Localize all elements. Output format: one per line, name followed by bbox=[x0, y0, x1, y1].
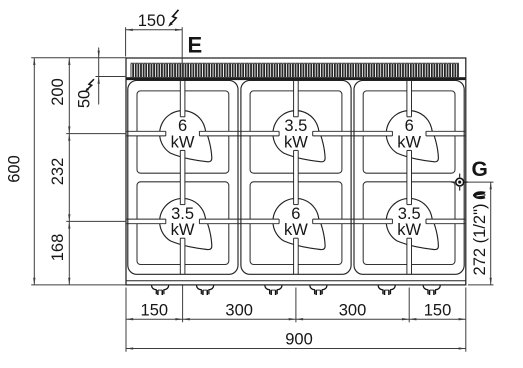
dimension text 150 (bottom left) bbox=[141, 302, 169, 320]
dimension 50 line and outside arrows bbox=[98, 48, 100, 105]
grate bar vertical col1 seg1 bbox=[180, 80, 185, 116]
dimension 272 extension lines bbox=[468, 182, 494, 285]
burner well tray 2 bbox=[137, 182, 229, 265]
electrical lightning bolt (50) bbox=[85, 79, 94, 91]
dimension text 272 (1/2") bbox=[471, 204, 489, 276]
range top front edge inner line bbox=[126, 280, 466, 282]
grate bar vertical col3 seg2 bbox=[407, 150, 412, 204]
svg-text:kW: kW bbox=[397, 221, 421, 239]
svg-text:600: 600 bbox=[6, 155, 24, 183]
burner 1 (6 kW) body bbox=[160, 111, 212, 162]
dimension 50 extension line bbox=[96, 76, 127, 78]
bottom chain dimension line bbox=[126, 318, 466, 320]
grate support foot 4 bbox=[310, 286, 327, 296]
grate bar horizontal row1 seg1 bbox=[127, 131, 166, 136]
dimension text 232 bbox=[49, 158, 67, 186]
svg-text:272 (1/2"): 272 (1/2") bbox=[471, 204, 489, 276]
dimension text 300 (bottom mid-left) bbox=[225, 302, 253, 320]
grate support foot 1 bbox=[152, 286, 169, 296]
dimension text 50 bbox=[75, 90, 93, 108]
burner 2 power label 3.5 kW bbox=[284, 117, 308, 151]
comb strip thick base line bbox=[126, 77, 466, 80]
svg-text:168: 168 bbox=[49, 234, 67, 262]
grate bar vertical col2 seg1 bbox=[294, 80, 299, 116]
grate support foot 3 bbox=[265, 286, 282, 296]
burner well tray 5 bbox=[363, 91, 455, 173]
dimension text 900 bbox=[285, 331, 313, 349]
grate bar vertical col2 seg2 bbox=[294, 150, 299, 204]
grate panel 1 outline bbox=[128, 80, 238, 274]
range body outline bbox=[126, 58, 466, 285]
electrical lightning bolt (top) bbox=[168, 10, 178, 27]
grate bar horizontal row2 seg2 bbox=[199, 219, 279, 224]
grate bar horizontal row1 seg3 bbox=[313, 131, 393, 136]
burner well tray 1 bbox=[137, 91, 229, 173]
svg-text:300: 300 bbox=[339, 302, 367, 320]
burner 3 power label 6 kW bbox=[397, 117, 421, 151]
svg-text:150: 150 bbox=[424, 302, 452, 320]
grate support foot 5 bbox=[378, 286, 395, 296]
burner 1 power label 6 kW bbox=[171, 117, 195, 151]
burner 4 (3.5 kW) body bbox=[160, 198, 212, 249]
dimension 272 line and arrows bbox=[490, 182, 492, 285]
chain dimension extension lines 200/232/168 bbox=[66, 134, 126, 222]
bottom extension lines bbox=[126, 286, 466, 352]
svg-text:232: 232 bbox=[49, 158, 67, 186]
svg-text:150: 150 bbox=[141, 302, 169, 320]
dimension 150 (top, E position) extension lines bbox=[126, 27, 183, 80]
label E electrical connection bbox=[188, 33, 203, 58]
grate bar vertical col1 seg3 bbox=[180, 238, 185, 274]
svg-text:E: E bbox=[188, 33, 203, 58]
grate support foot 6 bbox=[423, 286, 440, 296]
grate bar horizontal row2 seg3 bbox=[313, 219, 393, 224]
dimension 150 (top) line and arrows bbox=[126, 29, 183, 31]
rear comb strip teeth bbox=[131, 63, 460, 77]
svg-text:kW: kW bbox=[171, 221, 195, 239]
burner well tray 3 bbox=[250, 91, 342, 173]
gas connection point marker bbox=[451, 174, 468, 191]
svg-text:kW: kW bbox=[284, 221, 308, 239]
svg-text:G: G bbox=[472, 158, 488, 181]
grate bar vertical col1 seg2 bbox=[180, 150, 185, 204]
grate bar horizontal row2 seg1 bbox=[127, 219, 166, 224]
chain dimension line 200/232/168 with arrows bbox=[68, 58, 70, 285]
gas flame icon bbox=[473, 191, 486, 199]
label G gas connection bbox=[472, 158, 488, 181]
grate bar vertical col3 seg3 bbox=[407, 238, 412, 274]
svg-text:900: 900 bbox=[285, 331, 313, 349]
svg-text:300: 300 bbox=[225, 302, 253, 320]
burner 6 power label 3.5 kW bbox=[397, 205, 421, 239]
dimension text 600 bbox=[6, 155, 24, 183]
burner well tray 4 bbox=[250, 182, 342, 265]
burner 6 (3.5 kW) body bbox=[386, 198, 438, 249]
svg-text:150: 150 bbox=[138, 12, 166, 30]
burner 2 (3.5 kW) body bbox=[273, 111, 325, 162]
dimension text 168 bbox=[49, 234, 67, 262]
dimension 900 line and arrows bbox=[126, 347, 466, 349]
svg-text:kW: kW bbox=[397, 133, 421, 151]
svg-text:50: 50 bbox=[75, 90, 93, 108]
grate bar horizontal row1 seg2 bbox=[199, 131, 279, 136]
burner well tray 6 bbox=[363, 182, 455, 265]
grate panel 3 outline bbox=[354, 80, 464, 274]
burner 5 power label 6 kW bbox=[284, 205, 308, 239]
grate bar vertical col3 seg1 bbox=[407, 80, 412, 116]
svg-text:kW: kW bbox=[284, 133, 308, 151]
dimension text 200 bbox=[49, 78, 67, 106]
grate support foot 2 bbox=[197, 286, 214, 296]
burner 3 (6 kW) body bbox=[386, 111, 438, 162]
svg-text:kW: kW bbox=[171, 133, 195, 151]
grate bar vertical col2 seg3 bbox=[294, 238, 299, 274]
dimension 600 line and arrows bbox=[33, 58, 35, 285]
burner 5 (6 kW) body bbox=[273, 198, 325, 249]
dimension text 150 (bottom right) bbox=[424, 302, 452, 320]
grate bar horizontal row1 seg4 bbox=[426, 131, 465, 136]
grate bar horizontal row2 seg4 bbox=[426, 219, 465, 224]
svg-text:200: 200 bbox=[49, 78, 67, 106]
dimension 600 extension lines bbox=[31, 58, 126, 285]
burner 4 power label 3.5 kW bbox=[171, 205, 195, 239]
grate panel 2 outline bbox=[241, 80, 351, 274]
dimension text 300 (bottom mid-right) bbox=[339, 302, 367, 320]
dimension text 150 (top) bbox=[138, 12, 166, 30]
